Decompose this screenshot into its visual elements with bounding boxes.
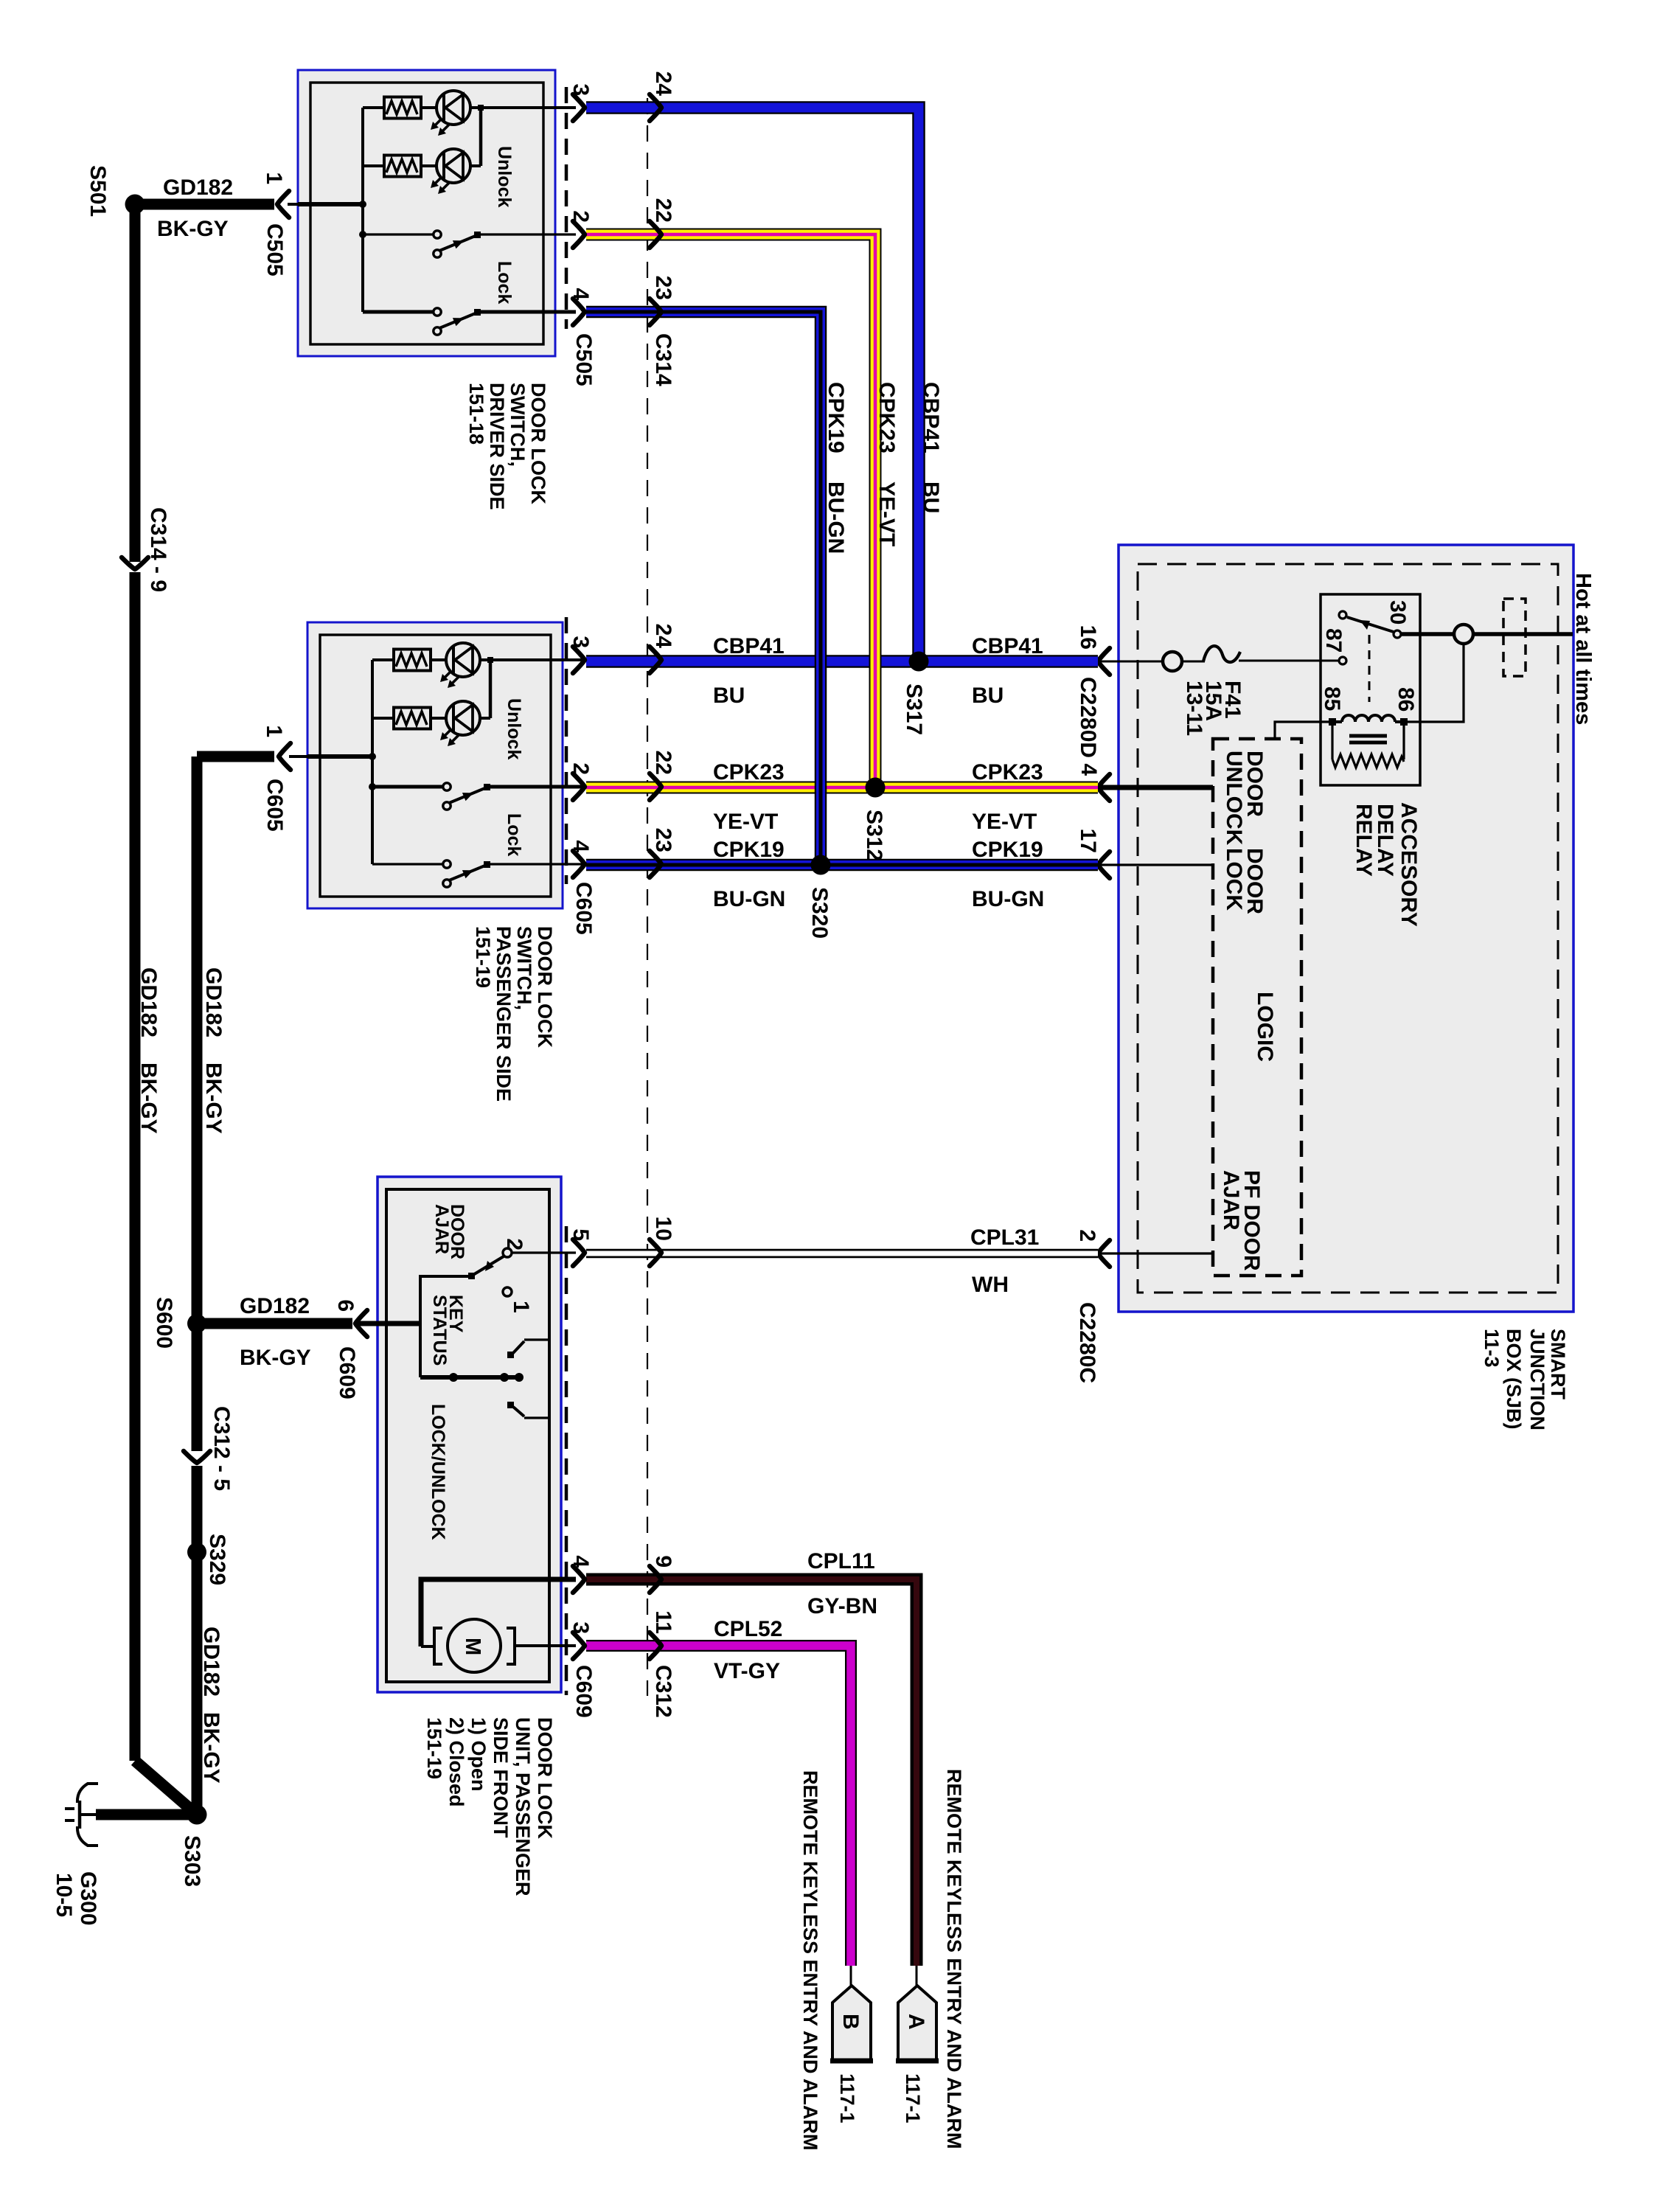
svg-text:C505: C505: [262, 223, 287, 276]
svg-text:Unlock: Unlock: [504, 698, 524, 759]
door lock switch driver side lock switch: [363, 310, 433, 314]
svg-text:C314 - 9: C314 - 9: [146, 507, 170, 592]
svg-text:JUNCTION: JUNCTION: [1526, 1329, 1548, 1430]
relay internal resistor: [1331, 722, 1333, 759]
svg-text:VT-GY: VT-GY: [714, 1659, 780, 1683]
svg-text:C609: C609: [571, 1665, 596, 1718]
relay switch blade: [1347, 617, 1394, 632]
svg-text:S312: S312: [862, 810, 886, 861]
svg-text:10-5: 10-5: [52, 1873, 76, 1917]
hot at all times dashed connector: [1503, 599, 1526, 676]
svg-text:C314: C314: [651, 333, 675, 386]
svg-text:AJAR: AJAR: [431, 1204, 452, 1254]
wire GD182 second vertical lower segment: [192, 1466, 203, 1815]
svg-text:S317: S317: [902, 684, 926, 735]
svg-text:23: 23: [651, 828, 675, 852]
wire SJB pin 4 to door unlock logic: [1099, 785, 1213, 790]
splice S320: [811, 855, 831, 875]
eyelet ring at fuse: [1163, 652, 1182, 671]
wire relay pin 87 stub: [1321, 660, 1338, 662]
svg-text:C2280D: C2280D: [1076, 677, 1100, 758]
relay coil: [1342, 715, 1395, 722]
svg-text:1: 1: [509, 1301, 533, 1313]
connector arrow C312 pin11: [650, 1632, 661, 1659]
relay pin 87a contact: [1339, 611, 1346, 619]
svg-text:CPK23: CPK23: [874, 382, 899, 453]
svg-text:GD182: GD182: [199, 1627, 223, 1697]
svg-text:CPK19: CPK19: [824, 382, 848, 453]
connector arrow C312 pin10: [650, 1239, 661, 1266]
svg-text:DRIVER SIDE: DRIVER SIDE: [486, 383, 508, 510]
door ajar switch blade: [472, 1256, 504, 1276]
svg-text:C312: C312: [651, 1665, 675, 1718]
wire GD182 left vertical upper segment: [130, 204, 141, 562]
svg-text:STATUS: STATUS: [429, 1295, 450, 1366]
connector arrow C605 pin3: [573, 647, 585, 673]
svg-text:1) Open: 1) Open: [467, 1717, 490, 1792]
svg-text:GD182: GD182: [163, 175, 233, 200]
svg-text:YE-VT: YE-VT: [713, 810, 778, 834]
connector arrow C605 pin4: [573, 851, 585, 877]
svg-text:BU: BU: [919, 481, 943, 513]
svg-text:151-18: 151-18: [465, 383, 487, 445]
splice S501: [125, 195, 145, 215]
svg-text:C505: C505: [571, 333, 596, 386]
door lock switch driver side illumination resistor R1: [363, 106, 384, 109]
svg-text:86: 86: [1394, 687, 1418, 712]
key status box: [420, 1276, 470, 1377]
svg-text:BU: BU: [713, 684, 745, 708]
svg-text:CPL31: CPL31: [970, 1225, 1039, 1250]
connector arrow C605 pin2: [573, 773, 585, 800]
wire CPK23 YE-VT from passenger switch pin2 to SJB pin4: [586, 782, 1098, 794]
door lock switch driver side illumination LED2: [421, 164, 437, 167]
door lock switch driver side wire LED1 to pin3: [470, 106, 576, 109]
svg-text:3: 3: [568, 83, 593, 96]
connector boundary C609 dashed line: [565, 1226, 568, 1695]
door lock switch driver side internal bus wire: [361, 108, 364, 312]
svg-text:2: 2: [568, 762, 593, 775]
wire relay pin 85 to logic box: [1275, 722, 1332, 739]
wire CPK19 BU-GN from driver switch pin4 down to S320: [586, 312, 821, 865]
door lock switch passenger side unlock switch: [372, 785, 442, 789]
svg-text:BK-GY: BK-GY: [136, 1062, 161, 1134]
relay core: [1349, 734, 1387, 738]
svg-text:BU-GN: BU-GN: [713, 887, 785, 911]
door lock switch passenger side pin1 wire: [307, 754, 372, 759]
relay coil terminal 85 dot: [1329, 718, 1336, 726]
svg-text:BU: BU: [972, 684, 1004, 708]
connector boundary C505 dashed line: [565, 87, 568, 329]
svg-text:BK-GY: BK-GY: [201, 1062, 226, 1134]
svg-text:C609: C609: [335, 1346, 359, 1399]
svg-text:2: 2: [502, 1238, 526, 1251]
connector arrow SJB pin 2: [1098, 1240, 1110, 1267]
svg-text:CBP41: CBP41: [713, 634, 785, 658]
connector arrow C314 pin22 row1: [650, 221, 661, 248]
svg-text:S600: S600: [152, 1297, 176, 1349]
svg-text:WH: WH: [972, 1273, 1009, 1297]
door lock switch driver side wire unlock switch to pin2: [479, 233, 576, 235]
door lock switch passenger side lock switch: [372, 863, 442, 865]
connector arrow C314 pin23 row1: [650, 299, 661, 325]
splice S600: [187, 1314, 206, 1333]
door lock switch driver side illumination resistor R2: [363, 164, 384, 167]
svg-text:S303: S303: [180, 1835, 204, 1887]
connector arrow C314 pin24 row1: [650, 94, 661, 121]
relay coil terminal 86 dot: [1400, 718, 1408, 726]
svg-text:YE-VT: YE-VT: [874, 481, 899, 546]
wire CPL52 VT-GY from lock unit pin3 to connector B: [586, 1646, 851, 1966]
svg-text:ACCESORY: ACCESORY: [1397, 802, 1421, 927]
svg-text:BOX (SJB): BOX (SJB): [1503, 1329, 1525, 1430]
wire CBP41 BU from passenger switch pin3 to SJB pin16: [586, 655, 1098, 668]
connector arrow C609 pin3: [573, 1632, 585, 1659]
relay pin 87 contact: [1339, 657, 1346, 664]
wire GD182 S600 branch to lock unit pin6: [197, 1318, 352, 1329]
door lock switch passenger side wire LED link vertical: [489, 660, 493, 718]
svg-text:DOOR LOCK: DOOR LOCK: [534, 1717, 556, 1839]
wire CPK23 YE-VT from driver switch pin2 down to S312: [586, 234, 875, 787]
svg-text:2: 2: [1075, 1229, 1099, 1242]
relay actuator dashed link: [1368, 635, 1371, 702]
eyelet ring at relay feed: [1454, 625, 1473, 644]
door lock switch passenger side illumination resistor R2: [372, 717, 394, 720]
wire GD182 diagonal to S303: [135, 1761, 197, 1815]
svg-text:6: 6: [333, 1299, 358, 1312]
connector B to remote keyless entry: [850, 1966, 852, 1986]
svg-text:24: 24: [651, 72, 675, 97]
svg-text:Lock: Lock: [494, 261, 515, 304]
connector arrow SJB pin 17: [1098, 852, 1110, 878]
door lock switch passenger side inner border: [320, 635, 551, 897]
door lock switch driver side wire lock switch to pin4: [479, 310, 576, 314]
svg-text:UNLOCK: UNLOCK: [1222, 751, 1246, 846]
svg-text:CPL11: CPL11: [807, 1549, 875, 1573]
svg-text:5: 5: [568, 1228, 593, 1241]
splice S329: [187, 1543, 206, 1562]
svg-text:151-19: 151-19: [472, 926, 494, 988]
splice S303: [187, 1805, 207, 1825]
door ajar switch contact 2: [503, 1248, 512, 1257]
svg-text:RELAY: RELAY: [1352, 804, 1376, 877]
svg-text:GD182: GD182: [201, 967, 226, 1037]
svg-text:24: 24: [651, 624, 675, 649]
ground G300 symbol: [81, 1813, 98, 1816]
door lock switch driver side inner border: [310, 83, 543, 344]
wire GD182 passenger switch pin1 to second vertical: [197, 751, 274, 762]
svg-text:CPK23: CPK23: [972, 760, 1043, 785]
svg-text:4: 4: [568, 1555, 593, 1568]
wire SJB pin 2 to pf door ajar logic: [1099, 1252, 1213, 1254]
svg-text:117-1: 117-1: [836, 2073, 858, 2124]
connector boundary C605 dashed line: [565, 617, 568, 884]
svg-text:AJAR: AJAR: [1219, 1170, 1243, 1231]
fuse F41: [1203, 646, 1240, 662]
connector arrow C505 pin2: [573, 221, 585, 248]
svg-text:BK-GY: BK-GY: [199, 1712, 223, 1784]
svg-text:151-19: 151-19: [423, 1717, 445, 1779]
svg-text:REMOTE KEYLESS ENTRY AND ALARM: REMOTE KEYLESS ENTRY AND ALARM: [943, 1769, 965, 2149]
connector arrow C609 pin4: [573, 1566, 585, 1593]
svg-text:3: 3: [568, 1621, 593, 1634]
svg-text:4: 4: [1077, 763, 1101, 776]
door lock switch passenger side outline: [307, 622, 563, 908]
svg-text:22: 22: [651, 751, 675, 775]
smart junction box SJB outline: [1119, 545, 1573, 1312]
svg-text:2) Closed: 2) Closed: [445, 1717, 467, 1807]
door lock unit inner border: [386, 1189, 549, 1682]
door lock switch driver side pin1 wire: [298, 202, 363, 206]
svg-text:13-11: 13-11: [1182, 681, 1206, 736]
wire relay pin 86 to ring: [1408, 644, 1464, 722]
wire relay pin 30 to hot feed: [1401, 632, 1454, 636]
svg-text:30: 30: [1385, 600, 1410, 625]
connector arrow C605 pin1: [279, 743, 291, 770]
svg-text:GD182: GD182: [240, 1294, 310, 1318]
relay K1 accessory delay relay box: [1321, 594, 1420, 785]
svg-text:DOOR LOCK: DOOR LOCK: [534, 926, 556, 1048]
door lock switch passenger side bus junction dot pin1: [369, 753, 376, 760]
door ajar open contact 1: [503, 1287, 512, 1296]
connector boundary C314/C312 dashed line: [647, 98, 648, 1696]
connector arrow SJB pin 4: [1098, 774, 1110, 801]
svg-text:CPK19: CPK19: [972, 838, 1043, 862]
svg-text:C605: C605: [571, 882, 596, 935]
svg-text:G300: G300: [76, 1871, 100, 1925]
wire GD182 second vertical upper segment: [192, 757, 203, 1451]
connector A to remote keyless entry: [916, 1966, 918, 1986]
wire CPK19 BU-GN from passenger switch pin4 to SJB pin17: [586, 859, 1098, 872]
svg-text:C312 - 5: C312 - 5: [209, 1406, 234, 1491]
svg-text:Lock: Lock: [504, 813, 524, 856]
svg-text:M: M: [461, 1638, 484, 1655]
connector arrow C505 pin3: [573, 94, 585, 121]
svg-text:4: 4: [568, 840, 593, 852]
svg-text:10: 10: [651, 1217, 675, 1241]
door lock switch passenger side illumination resistor R1: [372, 658, 394, 661]
wire ring to hot-at-all-times connector: [1473, 632, 1573, 636]
svg-text:BK-GY: BK-GY: [157, 217, 229, 241]
connector arrow C312 pin23 row2: [650, 851, 661, 877]
wire GD182 left vertical lower segment: [130, 572, 141, 1761]
wire GD182 S303 to ground G300: [96, 1809, 197, 1820]
door lock switch driver side unlock switch: [363, 233, 433, 235]
wire door ajar switch to pin5: [512, 1251, 576, 1253]
svg-text:CBP41: CBP41: [972, 634, 1043, 658]
svg-text:S501: S501: [86, 165, 110, 217]
connector arrow C609 pin6: [355, 1310, 367, 1337]
wire SJB pin 17 to door lock logic: [1099, 863, 1213, 866]
relay pin 30 contact: [1394, 630, 1401, 638]
connector arrow C312 pin22 row2: [650, 773, 661, 800]
door lock switch driver side outline: [298, 70, 555, 356]
wire CPL11 GY-BN from lock unit pin4 to connector A: [586, 1579, 917, 1966]
door lock switch driver side bus junction dot pin1: [359, 201, 366, 208]
connector arrow C312 pin9: [650, 1566, 661, 1593]
svg-text:Unlock: Unlock: [494, 146, 515, 207]
svg-text:11-3: 11-3: [1481, 1329, 1503, 1368]
svg-text:LOGIC: LOGIC: [1253, 992, 1277, 1062]
wire lock unit pin4 internal: [421, 1579, 576, 1646]
svg-text:BU-GN: BU-GN: [824, 481, 848, 554]
wire CPL31 WH from lock unit pin5 to SJB pin2: [586, 1249, 1098, 1259]
svg-text:1: 1: [262, 172, 286, 184]
door lock switch driver side wire LED link vertical: [479, 108, 483, 166]
svg-text:GY-BN: GY-BN: [807, 1594, 877, 1618]
door lock switch passenger side wire LED1 to pin3: [480, 658, 585, 661]
splice S317: [909, 652, 929, 672]
svg-text:23: 23: [651, 276, 675, 300]
svg-text:BK-GY: BK-GY: [240, 1346, 311, 1370]
SJB logic dashed box: [1213, 739, 1301, 1276]
motor M: [434, 1628, 442, 1664]
svg-text:SIDE FRONT: SIDE FRONT: [490, 1717, 512, 1838]
svg-text:2: 2: [568, 210, 593, 223]
splice S312: [866, 778, 886, 798]
svg-text:SWITCH,: SWITCH,: [513, 926, 535, 1010]
svg-text:9: 9: [651, 1555, 675, 1568]
connector arrow C505 pin4: [573, 299, 585, 325]
svg-text:11: 11: [651, 1610, 675, 1634]
svg-text:LOCK/UNLOCK: LOCK/UNLOCK: [428, 1404, 448, 1540]
svg-text:CBP41: CBP41: [919, 382, 943, 453]
svg-text:C2280C: C2280C: [1075, 1302, 1099, 1383]
wire motor left bracket: [421, 1645, 434, 1648]
wire GD182 BK-GY S501 to driver switch pin1: [135, 199, 274, 210]
connector arrow C609 pin5: [573, 1239, 585, 1266]
wire motor to pin3: [515, 1644, 576, 1647]
lock/unlock lower switch: [507, 1402, 514, 1408]
svg-text:B: B: [838, 2014, 863, 2030]
door lock switch passenger side illumination LED1: [431, 658, 446, 661]
svg-text:S329: S329: [205, 1534, 229, 1585]
connector arrow C505 pin1: [277, 191, 289, 218]
svg-text:LOCK: LOCK: [1222, 848, 1246, 911]
svg-text:22: 22: [651, 198, 675, 223]
door lock switch passenger side wire unlock switch to pin2: [489, 785, 585, 789]
svg-text:YE-VT: YE-VT: [972, 810, 1037, 834]
inline connector C312-5 chevron: [184, 1451, 210, 1463]
svg-text:S320: S320: [807, 887, 832, 939]
svg-text:117-1: 117-1: [902, 2073, 924, 2124]
wire fuse to relay pin 87: [1239, 660, 1338, 662]
svg-text:UNIT, PASSENGER: UNIT, PASSENGER: [512, 1717, 534, 1896]
door lock switch passenger side wire lock switch to pin4: [489, 863, 585, 865]
svg-text:DOOR LOCK: DOOR LOCK: [527, 383, 549, 504]
svg-text:4: 4: [568, 288, 593, 300]
key status bottom contacts: [449, 1373, 458, 1382]
svg-text:87: 87: [1321, 628, 1346, 653]
svg-text:CPK19: CPK19: [713, 838, 785, 862]
key status box bottom edge: [420, 1375, 521, 1380]
svg-text:SMART: SMART: [1547, 1329, 1569, 1399]
key status middle switch: [507, 1352, 514, 1358]
connector arrow SJB pin 16: [1098, 648, 1110, 675]
connector arrow C312 pin24 row2: [650, 647, 661, 673]
svg-text:CPK23: CPK23: [713, 760, 785, 785]
svg-text:GD182: GD182: [136, 967, 161, 1037]
wire CBP41 BU from driver switch pin3 down to S317: [586, 108, 919, 661]
wire pin6 into key status: [358, 1321, 420, 1326]
inline connector C314-9 chevron: [122, 557, 148, 569]
svg-text:17: 17: [1076, 829, 1100, 853]
SJB inner dashed boundary: [1138, 564, 1558, 1293]
svg-text:C605: C605: [262, 779, 287, 832]
svg-text:BU-GN: BU-GN: [972, 887, 1044, 911]
door lock unit outline: [378, 1177, 561, 1692]
door lock switch passenger side internal bus wire: [371, 660, 374, 864]
door lock switch driver side illumination LED1: [421, 106, 437, 109]
wire SJB pin16 to fuse: [1099, 661, 1163, 663]
svg-text:REMOTE KEYLESS ENTRY AND ALARM: REMOTE KEYLESS ENTRY AND ALARM: [799, 1770, 821, 2151]
svg-text:3: 3: [568, 636, 593, 648]
svg-text:16: 16: [1076, 625, 1100, 650]
door lock switch passenger side illumination LED2: [431, 717, 446, 720]
svg-text:PASSENGER SIDE: PASSENGER SIDE: [493, 926, 515, 1102]
svg-text:A: A: [904, 2014, 928, 2030]
svg-text:SWITCH,: SWITCH,: [507, 383, 529, 467]
svg-text:Hot at all times: Hot at all times: [1571, 573, 1595, 725]
svg-text:1: 1: [262, 725, 286, 737]
svg-text:CPL52: CPL52: [714, 1617, 782, 1641]
svg-text:85: 85: [1320, 686, 1344, 711]
door ajar blade end dot: [468, 1273, 475, 1279]
